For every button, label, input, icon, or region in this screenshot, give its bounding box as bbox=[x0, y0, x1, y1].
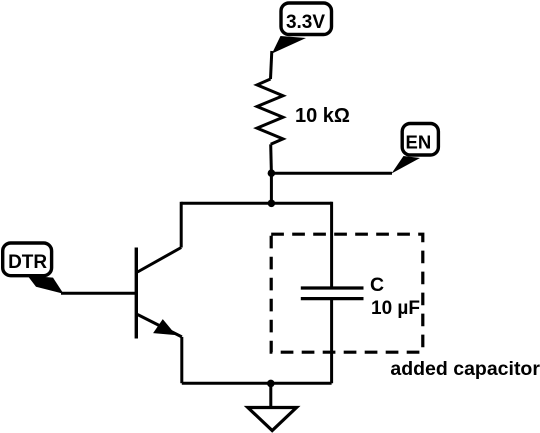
dashed highlight box bbox=[271, 234, 423, 352]
junction node EN bbox=[268, 169, 276, 177]
net label DTR bbox=[3, 243, 64, 294]
wire: emitter lead down bbox=[180, 337, 183, 383]
transistor Q1 bbox=[136, 248, 182, 339]
resistor R1 10k bbox=[257, 79, 283, 144]
wire: collector riser bbox=[180, 202, 183, 248]
wire: top rail (collector node tee) bbox=[181, 202, 331, 205]
svg-text:C: C bbox=[370, 274, 384, 296]
wire: bottom rail (ground node tee) bbox=[182, 382, 332, 385]
wire: node EN down to collector node bbox=[270, 173, 273, 203]
ground bbox=[248, 383, 297, 430]
svg-text:3.3V: 3.3V bbox=[286, 12, 325, 33]
wire: node EN to EN label tail bbox=[271, 172, 392, 175]
svg-text:EN: EN bbox=[406, 132, 432, 153]
wire: resistor bottom to node EN bbox=[269, 144, 273, 173]
wire: 3.3V tail to resistor top bbox=[271, 51, 272, 79]
svg-text:DTR: DTR bbox=[8, 252, 47, 273]
wire: DTR tail to base bbox=[61, 292, 136, 295]
svg-text:10 µF: 10 µF bbox=[371, 298, 420, 319]
svg-text:added capacitor: added capacitor bbox=[390, 358, 540, 380]
junction ground node bbox=[267, 380, 275, 388]
junction collector node bbox=[268, 200, 276, 208]
wire: capacitor bottom lead bbox=[330, 299, 333, 384]
capacitor C1 bbox=[301, 288, 364, 299]
wire: capacitor top lead bbox=[330, 202, 333, 288]
svg-text:10 kΩ: 10 kΩ bbox=[295, 105, 350, 127]
net label 3.3V bbox=[272, 3, 332, 54]
net label EN bbox=[392, 124, 439, 174]
